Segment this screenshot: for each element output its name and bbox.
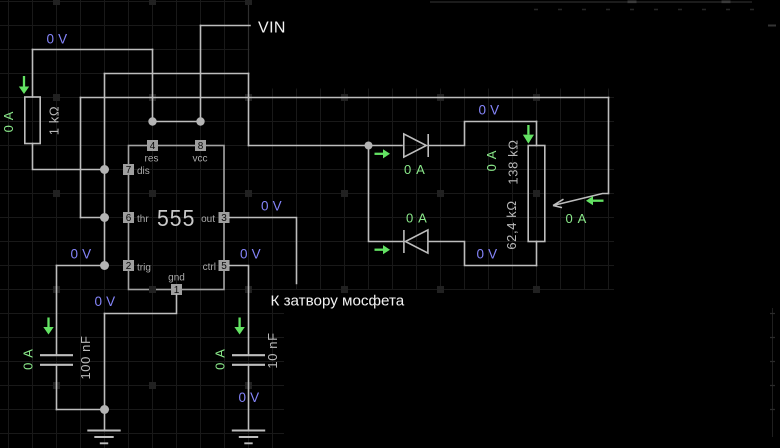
wire C1 to ground node: [57, 409, 105, 411]
wire gnd rail down: [104, 314, 106, 431]
svg-text:0 V: 0 V: [47, 32, 68, 47]
node thr: [100, 213, 109, 222]
svg-text:0 V: 0 V: [261, 199, 282, 214]
current arrow C2: [234, 318, 244, 335]
node gnd junction: [100, 405, 109, 414]
pin 1 gnd: [171, 284, 182, 295]
pin 7 dis: [123, 164, 134, 175]
wire rail top horizontal: [105, 73, 249, 75]
svg-text:0 A: 0 A: [406, 211, 428, 226]
current arrow pot top: [523, 125, 534, 144]
svg-text:trig: trig: [137, 263, 151, 274]
wire down to diode row: [248, 74, 250, 146]
svg-text:0 V: 0 V: [71, 247, 92, 262]
wire trig to C1: [57, 265, 105, 267]
svg-text:1 kΩ: 1 kΩ: [47, 106, 62, 135]
node trig: [100, 261, 109, 270]
svg-text:0 V: 0 V: [477, 247, 498, 262]
wire out to mosfet gate: [230, 218, 297, 284]
pin 5 ctrl: [219, 260, 230, 271]
wire cathode D1 to corner: [429, 122, 537, 146]
svg-text:0 A: 0 A: [1, 111, 16, 133]
svg-text:7: 7: [126, 165, 132, 176]
svg-text:100 nF: 100 nF: [78, 335, 93, 379]
potentiometer P1 body: [528, 146, 545, 242]
wire thr node stub left: [81, 217, 105, 219]
svg-text:0 A: 0 A: [566, 211, 588, 226]
current arrow R1: [19, 76, 29, 94]
wire to R1 top: [32, 50, 34, 98]
wire D2 anode to corner: [429, 242, 537, 266]
capacitor C2: [232, 355, 265, 365]
pin 3 out: [219, 212, 230, 223]
svg-text:0 V: 0 V: [95, 294, 116, 309]
op-amp timer U1 555 body: [129, 146, 225, 290]
svg-text:0 V: 0 V: [240, 247, 261, 262]
svg-text:555: 555: [157, 205, 196, 231]
svg-text:out: out: [201, 214, 215, 225]
ground symbol right: [232, 431, 265, 444]
wire R1 bottom to dis node: [33, 144, 105, 170]
node vcc: [196, 117, 204, 125]
ground symbol left: [87, 431, 120, 444]
current arrow wiper: [586, 196, 604, 205]
svg-text:К затвору мосфета: К затвору мосфета: [271, 293, 405, 310]
wire dis-thr-trig vertical rail: [104, 74, 106, 266]
svg-text:0 V: 0 V: [479, 103, 500, 118]
svg-text:0 A: 0 A: [404, 162, 426, 177]
svg-text:2: 2: [126, 261, 132, 272]
wire C1 bottom lead: [56, 366, 58, 410]
current arrow D2: [375, 245, 391, 254]
svg-text:0 V: 0 V: [239, 390, 260, 405]
current arrow C1: [43, 318, 53, 335]
svg-text:vcc: vcc: [193, 154, 208, 165]
wire ctrl to C2: [230, 266, 249, 355]
wire long rail y97: [81, 97, 609, 99]
wire C1 top lead: [56, 266, 58, 355]
svg-text:gnd: gnd: [168, 273, 185, 284]
svg-text:5: 5: [221, 261, 227, 272]
svg-text:0 A: 0 A: [21, 348, 36, 370]
right scroll ruler: [772, 308, 774, 437]
diode D1: [404, 134, 428, 157]
resistor R1 body: [25, 97, 40, 144]
wire res node up: [152, 50, 154, 122]
svg-text:3: 3: [221, 213, 227, 224]
wire right rail down to wiper: [608, 98, 610, 194]
pin 8 vcc: [195, 140, 206, 151]
wire diode row to anode: [249, 145, 403, 147]
wire VIN horizontal: [201, 25, 251, 27]
svg-text:8: 8: [198, 141, 204, 152]
node res: [148, 117, 156, 125]
pin 2 trig: [123, 260, 134, 271]
potentiometer wiper arm: [553, 194, 609, 208]
wire thr branch up: [80, 98, 82, 218]
svg-text:6: 6: [126, 213, 132, 224]
svg-text:0 A: 0 A: [213, 348, 228, 370]
pin 4 res: [147, 140, 158, 151]
wire VIN vertical to vcc node: [200, 26, 202, 122]
window edge ticks top: [430, 1, 752, 3]
grid markers: [53, 0, 60, 5]
current arrow D1: [375, 149, 391, 158]
wire pot top lead: [536, 122, 538, 146]
svg-text:res: res: [145, 154, 159, 165]
wire gnd pin down: [105, 295, 177, 314]
svg-text:dis: dis: [137, 166, 150, 177]
wire C2 bottom to ground: [248, 366, 250, 430]
capacitor C1: [40, 355, 73, 365]
svg-text:138 kΩ: 138 kΩ: [506, 139, 521, 184]
node dis: [100, 165, 109, 174]
svg-text:4: 4: [150, 141, 156, 152]
node diode split: [365, 142, 373, 150]
svg-text:thr: thr: [137, 214, 149, 225]
svg-text:10 nF: 10 nF: [265, 332, 280, 368]
svg-text:ctrl: ctrl: [203, 262, 216, 273]
svg-text:62,4 kΩ: 62,4 kΩ: [504, 200, 519, 249]
diode D2: [404, 230, 428, 253]
svg-text:0 A: 0 A: [484, 150, 499, 172]
svg-text:VIN: VIN: [258, 20, 286, 37]
wire res-vcc nodes horizontal: [153, 121, 201, 123]
wire pot bottom lead: [536, 242, 538, 266]
wire 0V top horizontal: [33, 49, 153, 51]
wire diode node down: [369, 146, 404, 242]
pin 6 thr: [123, 212, 134, 223]
canvas boundary edge: [248, 0, 250, 73]
